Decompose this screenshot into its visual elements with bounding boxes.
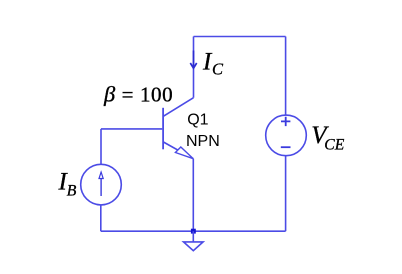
ground symbol [184,242,204,251]
voltage source plus sign [281,117,290,126]
svg-text:C: C [212,59,224,78]
svg-text:Q1: Q1 [187,111,208,128]
voltage source minus sign [281,146,291,148]
wire bottom horizontal [101,230,286,232]
junction dot [191,229,196,234]
svg-text:NPN: NPN [186,133,220,150]
current source I1 circle [81,164,122,205]
ground stub [192,231,194,242]
wire emitter vertical [192,159,194,232]
transistor Q1 base bar [162,108,164,150]
current source arrow shaft [100,178,102,196]
transistor Q1 emitter lead [163,142,193,159]
svg-text:B: B [67,183,77,200]
arrow IC on collector wire [193,51,195,69]
current source arrow head [99,172,103,178]
wire top horizontal [194,36,286,38]
wire left vertical lower [100,205,102,231]
voltage source V1 circle [266,115,307,156]
transistor Q1 collector lead [163,98,193,117]
wire right vertical lower [285,156,287,232]
svg-text:CE: CE [324,136,344,153]
wire right vertical upper [285,37,287,116]
transistor Q1 emitter arrow [175,147,193,159]
wire left vertical upper [100,129,102,164]
wire base horizontal [101,128,162,130]
svg-text:β = 100: β = 100 [103,82,173,107]
wire collector vertical [193,37,195,98]
